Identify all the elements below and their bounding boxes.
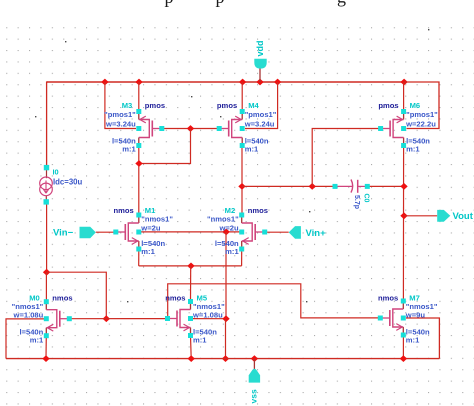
current source I0 <box>46 168 48 179</box>
svg-text:I0: I0 <box>53 168 59 177</box>
wire M7 source to vss <box>402 335 404 359</box>
junction bulk net tap <box>223 229 230 236</box>
junction rail / vdd stem <box>256 79 263 86</box>
junction rail / M6 source <box>400 79 407 86</box>
svg-text:vdd: vdd <box>255 40 265 56</box>
svg-text:"pmos1": "pmos1" <box>104 110 136 119</box>
wire tail to M5 drain <box>190 266 192 302</box>
wire bias over-route M5 gate to M7 gate <box>168 284 381 319</box>
junction Vout <box>400 212 407 219</box>
wire M1 source to tail <box>138 249 140 266</box>
svg-text:Vin+: Vin+ <box>306 228 327 239</box>
wire M5 source to vss <box>190 336 193 359</box>
svg-text:p: p <box>216 0 225 7</box>
svg-text:m:1: m:1 <box>193 335 207 344</box>
wire vss rail <box>6 358 439 360</box>
pin Vin- <box>80 227 96 239</box>
junction I0 / M0 drain / diode <box>43 269 50 276</box>
svg-text:pmos: pmos <box>378 101 398 110</box>
svg-text:Vout: Vout <box>453 211 474 222</box>
wire branch to M6 gate <box>312 129 380 187</box>
svg-text:w=3.24u: w=3.24u <box>244 120 275 129</box>
svg-text:"nmos1": "nmos1" <box>193 302 225 311</box>
svg-text:M3: M3 <box>122 101 133 110</box>
wire M5 bulk stub <box>191 318 227 320</box>
junction first stage output <box>238 183 245 190</box>
wire Vin+ to M2 gate <box>265 231 288 233</box>
svg-text:m:1: m:1 <box>122 145 136 154</box>
svg-text:"nmos1": "nmos1" <box>207 215 239 224</box>
svg-text:"nmos1": "nmos1" <box>406 302 438 311</box>
wire vdd rail to I0 <box>47 82 48 168</box>
svg-text:C0: C0 <box>363 194 370 203</box>
wire rail to M6 bulk (loop) <box>404 82 439 129</box>
vss symbol <box>253 359 255 371</box>
transistor M0 (nmos) <box>45 302 47 310</box>
transistor M3 (pmos) <box>138 112 140 120</box>
svg-text:w=1.08u: w=1.08u <box>192 311 223 320</box>
wire bulk to vss rail <box>225 319 227 359</box>
svg-text:m:1: m:1 <box>141 247 155 256</box>
wire rail to M3 source <box>138 82 140 111</box>
vdd symbol <box>259 68 261 82</box>
junction M6 gate branch <box>309 183 316 190</box>
wire tail node <box>139 265 242 267</box>
svg-text:5.7p: 5.7p <box>353 195 360 209</box>
junction rail / M4 bulk branch <box>274 79 281 86</box>
transistor M6 (pmos) <box>403 112 405 120</box>
wire diode loop to M3 drain <box>139 129 191 164</box>
wire stage1 output to C0 <box>242 185 335 187</box>
svg-text:nmos: nmos <box>378 293 398 302</box>
wire rail to M6 source <box>403 82 405 112</box>
junction diode / bias line <box>103 315 110 322</box>
svg-text:m:1: m:1 <box>225 247 239 256</box>
wire rail to M4 source <box>241 82 243 111</box>
wire bias M0 gate to M5 gate <box>70 318 168 320</box>
svg-text:vss: vss <box>249 389 259 403</box>
svg-text:"pmos1": "pmos1" <box>245 110 277 119</box>
svg-text:w=22.2u: w=22.2u <box>405 120 436 129</box>
svg-text:m:1: m:1 <box>406 335 420 344</box>
wire to M0 drain <box>45 272 47 302</box>
wire Vin- to M1 gate <box>96 231 116 233</box>
svg-text:m:1: m:1 <box>406 145 420 154</box>
junction rail / M4 source <box>239 79 246 86</box>
svg-text:nmos: nmos <box>52 293 72 302</box>
pin Vout <box>404 215 437 217</box>
stray dark dots <box>35 116 36 117</box>
junction bulk / M5 bulk <box>222 315 229 322</box>
wire gate line M3-M4 <box>162 128 219 130</box>
junction M5 source / vss <box>188 355 195 362</box>
capacitor C0 <box>335 185 352 187</box>
wire rail to M3 bulk <box>105 82 136 129</box>
svg-text:w=1.08u: w=1.08u <box>13 311 44 320</box>
svg-text:p: p <box>165 0 174 7</box>
svg-text:pmos: pmos <box>145 101 165 110</box>
wire M0 bulk to vss (left loop) <box>6 319 44 359</box>
transistor M4 (pmos) <box>241 112 243 120</box>
wire M2 source to tail <box>241 249 243 266</box>
svg-text:m:1: m:1 <box>30 335 44 344</box>
svg-text:Idc=30u: Idc=30u <box>53 177 82 186</box>
svg-text:nmos: nmos <box>165 293 185 302</box>
wire rail to M4 bulk <box>245 82 278 129</box>
wire I0 to bias node <box>46 202 48 272</box>
transistor M1 (nmos) <box>138 215 140 223</box>
pin Vin+ <box>289 226 301 239</box>
wire bulk net drop <box>225 232 227 319</box>
transistor M2 (nmos) <box>241 215 243 223</box>
svg-text:Vin−: Vin− <box>53 228 74 239</box>
wire C0 to output node <box>367 185 404 187</box>
wire output column M6 drain to M7 drain <box>402 146 404 302</box>
svg-text:w=9u: w=9u <box>405 311 426 320</box>
junction vss stem <box>251 355 258 362</box>
wire bulk net M1 to M2 <box>139 231 242 233</box>
wire M7 bulk to vss (right loop) <box>406 318 439 359</box>
junction C0 / output <box>400 183 407 190</box>
junction bulk / vss rail <box>222 355 229 362</box>
wire M4 drain to M2 drain <box>241 146 243 215</box>
junction gate line <box>187 125 194 132</box>
svg-text:pmos: pmos <box>217 101 237 110</box>
svg-text:m:1: m:1 <box>245 145 259 154</box>
junction M3 drain / diode loop <box>135 160 142 167</box>
svg-text:w=2u: w=2u <box>140 224 161 233</box>
svg-text:w=2u: w=2u <box>218 224 239 233</box>
svg-text:w=3.24u: w=3.24u <box>105 120 136 129</box>
wire diode jog to bias line <box>47 272 107 319</box>
svg-text:"nmos1": "nmos1" <box>141 215 173 224</box>
svg-text:"pmos1": "pmos1" <box>406 110 438 119</box>
svg-text:g: g <box>337 0 346 7</box>
svg-text:nmos: nmos <box>248 206 268 215</box>
junction rail / M3 bulk branch <box>101 79 108 86</box>
svg-text:"nmos1": "nmos1" <box>12 302 44 311</box>
transistor M7 (nmos) <box>402 301 404 309</box>
junction M0 source / vss <box>42 355 49 362</box>
junction tail <box>187 263 194 270</box>
junction M7 source / vss <box>400 355 407 362</box>
transistor M5 (nmos) <box>190 302 192 310</box>
svg-text:M4: M4 <box>248 101 259 110</box>
wire vdd rail <box>47 81 404 83</box>
junction rail / M3 source <box>135 79 142 86</box>
wire M3 drain to M1 drain <box>138 146 140 215</box>
svg-text:M6: M6 <box>410 101 421 110</box>
svg-text:nmos: nmos <box>114 206 134 215</box>
wire M0 source to vss <box>45 336 47 359</box>
